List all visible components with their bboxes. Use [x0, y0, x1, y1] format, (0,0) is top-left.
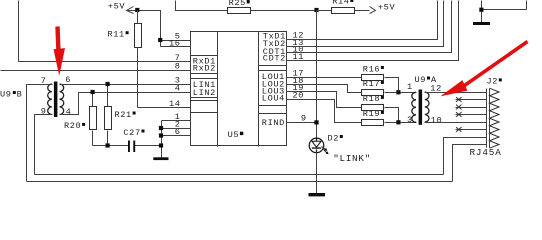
IC partition lines [218, 32, 259, 147]
IC text LIN1 LIN2 [193, 80, 216, 98]
svg-text:R17: R17 [363, 79, 380, 89]
svg-text:9: 9 [301, 114, 307, 124]
svg-text:J2: J2 [487, 77, 499, 87]
pin label 1 (U9A) [407, 82, 413, 92]
label J2* [487, 77, 502, 87]
junction dot R25/R14 [314, 8, 318, 12]
wire U9A pin10 to J2 [425, 122, 487, 124]
pin number 10 [293, 45, 305, 55]
IC text RxD1 RxD2 [193, 57, 216, 74]
pin number 14 [169, 99, 181, 109]
pin number 19 [293, 83, 305, 93]
resistor R11 [135, 11, 142, 108]
pin number 4 [175, 83, 181, 93]
pin number 2 [175, 120, 181, 130]
svg-text:R14: R14 [332, 0, 349, 6]
wire row8 to bottom bus [453, 145, 487, 182]
label R25 [229, 0, 250, 8]
capacitor C27 [128, 141, 135, 153]
resistor R20 [90, 93, 97, 146]
pin label 4 (U9B) [66, 107, 72, 117]
pin label 3 (U9A) [407, 115, 413, 125]
wire bottom bus outer [27, 181, 453, 183]
power arrow +5V left [127, 7, 138, 14]
resistor R16 [362, 75, 384, 81]
wire X stub row6 [456, 129, 487, 131]
svg-text:C27: C27 [123, 128, 140, 138]
svg-text:RIND: RIND [262, 118, 285, 128]
no-connect X row6 [456, 127, 461, 132]
pin number 18 [293, 76, 305, 86]
svg-text:U5: U5 [228, 130, 240, 140]
svg-text:1: 1 [407, 82, 413, 92]
wire R16/R17 to U9A pin1 [385, 78, 417, 93]
wire RxD1 loop left [19, 1, 191, 62]
no-connect X row4 [456, 112, 461, 117]
resistor R17 [362, 90, 384, 96]
label R19 [363, 109, 384, 119]
resistor R18 [362, 105, 384, 111]
wire LOU3 to R18 [287, 92, 362, 108]
wire +5V to pins 5,16 [138, 11, 191, 47]
pin label 6 (U9B) [65, 75, 71, 85]
wire CDT2 net [287, 1, 459, 61]
junction dot R18/R19 [396, 120, 400, 124]
wire LOU2 to R17 [287, 85, 362, 93]
connector J2 RJ45 [487, 88, 500, 148]
label R16 [363, 64, 384, 74]
wire R18/R19 to U9A pin3 [385, 108, 417, 123]
junction dot C27/ground [159, 143, 163, 147]
transformer U9B [48, 82, 64, 118]
wire X stub row3 [456, 107, 487, 109]
svg-text:B: B [17, 89, 23, 99]
label R18 [363, 94, 384, 104]
IC text RIND [262, 118, 285, 128]
junction dot R21 bottom [106, 143, 110, 147]
ground top-right [473, 22, 490, 25]
resistor R21 [105, 85, 112, 146]
svg-text:U9: U9 [415, 75, 427, 85]
wire bottom bus inner [35, 174, 444, 176]
pin label 10 (U9A) [431, 115, 443, 125]
svg-text:14: 14 [169, 99, 181, 109]
pin label 12 (U9A) [430, 84, 442, 94]
node +5V left label [108, 2, 126, 12]
svg-text:16: 16 [169, 38, 181, 48]
junction dot pin6 [159, 133, 163, 137]
wire RxD2 [1, 70, 191, 72]
svg-text:4: 4 [66, 107, 72, 117]
no-connect X row3 [456, 105, 461, 110]
IC sub-box RIND [259, 113, 287, 115]
pin number 13 [293, 38, 305, 48]
svg-text:R16: R16 [363, 64, 380, 74]
junction dot top-right [479, 8, 483, 12]
label U5 [228, 130, 244, 140]
svg-text:+5V: +5V [108, 2, 126, 12]
wire row7 to bottom bus [444, 138, 487, 175]
pin number 5 [175, 32, 181, 42]
ground under D2 [309, 193, 326, 196]
label U9*A [415, 75, 438, 85]
wire U9B pin7 to outer bus [27, 85, 53, 182]
pin number 16 [169, 38, 181, 48]
label R17 [363, 79, 384, 89]
wire TxD2 net [287, 1, 444, 47]
pin number 12 [293, 31, 305, 41]
pin number 20 [293, 91, 305, 101]
junction dot R16/R17 [396, 90, 400, 94]
label R20 [64, 121, 85, 131]
junction dot +5V/R11 [135, 8, 139, 12]
wire TxD1 net [287, 1, 438, 40]
wire U9B pin4 LIN2 [60, 93, 191, 115]
pin number 8 [175, 61, 181, 71]
IC sub-box empty [191, 101, 218, 113]
svg-text:+5V: +5V [378, 3, 396, 13]
svg-text:10: 10 [431, 115, 443, 125]
svg-text:R18: R18 [363, 94, 380, 104]
pin label 9 (U9B) [41, 107, 47, 117]
wire R25 branch from top [176, 1, 228, 11]
wire U9B pin9 to inner bus [35, 115, 53, 175]
wire top-right ground net [482, 1, 527, 23]
junction dot R20 top [91, 90, 95, 94]
svg-text:LIN2: LIN2 [193, 88, 216, 98]
wire U9A pin12 to J2 [425, 92, 487, 94]
annotation arrow left [54, 27, 66, 76]
wire RIND pin9 [287, 122, 317, 124]
power arrow +5V right [370, 7, 376, 14]
wire LOU1 to R16 [287, 77, 362, 79]
svg-text:U9: U9 [0, 89, 12, 99]
svg-text:RJ45A: RJ45A [470, 147, 502, 158]
svg-text:R25: R25 [229, 0, 246, 8]
wire LOU4 to R19 [287, 100, 362, 123]
IC sub-box TxD/CDT [259, 65, 287, 67]
pin number 6 [175, 127, 181, 137]
pin number 1 [175, 112, 181, 122]
wire X stub row2 [456, 99, 487, 101]
svg-text:LOU4: LOU4 [262, 94, 285, 104]
wire +5V down to RIND/D2 [316, 11, 318, 139]
IC text LOU1-4 [262, 72, 285, 103]
transformer U9A [412, 90, 429, 125]
pin number 11 [293, 52, 305, 62]
svg-text:"LINK": "LINK" [333, 153, 371, 164]
label U9*B [0, 89, 22, 99]
wire D2 to ground [316, 153, 318, 194]
wire CDT1 net [287, 1, 452, 53]
svg-text:8: 8 [175, 61, 181, 71]
resistor R19 [362, 120, 384, 126]
IC sub-box LOU [259, 71, 287, 106]
IC sub-box RxD [191, 56, 218, 74]
annotation arrow right [440, 42, 527, 97]
pin number 9 [301, 114, 307, 124]
ground under pins [153, 157, 168, 160]
svg-text:R19: R19 [363, 109, 380, 119]
resistor R25 [228, 8, 317, 14]
svg-text:R20: R20 [64, 121, 81, 131]
wire pins 1,2,6 to ground [162, 121, 191, 158]
LED D2 [309, 138, 324, 153]
pin number 17 [293, 69, 305, 79]
IC sub-box LIN [191, 79, 218, 98]
svg-text:3: 3 [407, 115, 413, 125]
pin label 7 (U9B) [41, 76, 47, 86]
IC text TxD1 TxD2 CDT1 CDT2 [263, 32, 286, 64]
node +5V right label [378, 3, 396, 13]
svg-text:RxD2: RxD2 [193, 64, 216, 74]
junction dot pin2 [159, 126, 163, 130]
label R21 [115, 110, 136, 120]
pin number 7 [175, 53, 181, 63]
label R11 [108, 30, 129, 40]
junction dot pin5 [158, 38, 162, 42]
pin number 3 [175, 75, 181, 85]
wire X stub row4 [456, 114, 487, 116]
label LINK [333, 153, 371, 164]
IC U5 outer box [191, 32, 287, 146]
svg-text:R21: R21 [115, 110, 132, 120]
resistor R14 [317, 8, 370, 14]
junction dot R21 top [106, 82, 110, 86]
junction dot RIND [314, 120, 318, 124]
wire pin14 [138, 107, 191, 109]
LED light arrows [322, 147, 329, 155]
svg-text:R11: R11 [108, 30, 125, 40]
wire C27 net [93, 145, 162, 147]
svg-text:D2: D2 [328, 133, 340, 143]
label D2 [328, 133, 343, 143]
label RJ45A [470, 147, 502, 158]
wire U9B pin6 LIN1 [60, 84, 191, 86]
svg-text:6: 6 [65, 75, 71, 85]
label R14 [332, 0, 353, 6]
no-connect X row2 [456, 97, 461, 102]
label C27 [123, 128, 144, 138]
svg-text:CDT2: CDT2 [263, 54, 286, 64]
